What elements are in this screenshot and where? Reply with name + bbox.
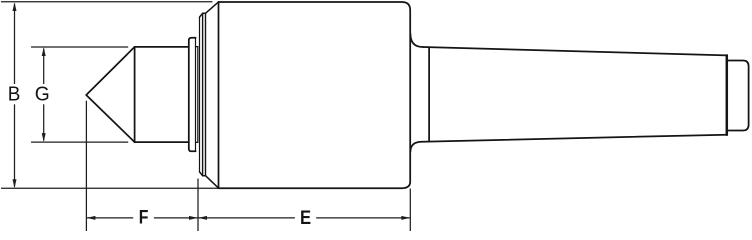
svg-text:E: E	[300, 205, 311, 228]
svg-text:B: B	[8, 83, 21, 106]
svg-text:F: F	[139, 206, 149, 228]
svg-text:G: G	[35, 83, 50, 106]
